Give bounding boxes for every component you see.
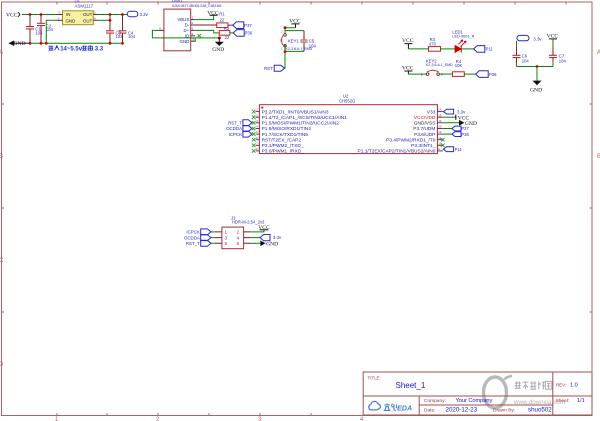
net port ICPCK (J1) xyxy=(186,229,214,235)
wire ground rail xyxy=(29,42,123,44)
capacitor C4 xyxy=(119,15,136,44)
net port ICPCK (MCU) xyxy=(229,131,252,137)
pin 4 (OUT) xyxy=(93,19,97,21)
svg-text:2020-12-23: 2020-12-23 xyxy=(446,406,478,413)
resistor R3 470 xyxy=(429,37,441,51)
wire C5 branch top xyxy=(285,30,304,32)
net port RST_T (J1) xyxy=(186,240,215,246)
svg-text:1/1: 1/1 xyxy=(577,398,585,404)
wire R2 to P36 xyxy=(230,32,234,34)
net port P36 (MCU) xyxy=(452,132,470,137)
pin 2 P1.4/T2_/CAP1_/SCS/TIN2/UCC1/AIN1 xyxy=(252,113,347,121)
node KEY1 bottom junction xyxy=(284,50,287,53)
regulator U1 ASM1117 xyxy=(58,0,98,25)
pin 4 P1.6/MISO/RXD1/TIN4 xyxy=(252,125,311,133)
net port P37 (MCU) xyxy=(452,126,470,131)
wire U1 GND to ground rail xyxy=(46,20,57,43)
svg-text:Company:: Company: xyxy=(424,398,446,404)
net port RST_T (MCU) xyxy=(228,120,252,126)
annotation 输入14~5.5v 输出3.3 xyxy=(49,45,93,50)
wire key bottom / C5 bottom xyxy=(285,45,304,69)
MCU U2 CH552G xyxy=(259,94,437,154)
svg-text:REV:: REV: xyxy=(556,383,566,388)
net flag 3.3v (V33 pin) xyxy=(443,109,466,114)
power VCC (KEY1) xyxy=(289,19,301,28)
capacitor C7 xyxy=(549,46,566,66)
wire R1 to P37 xyxy=(228,24,233,26)
node input junction 1 xyxy=(29,13,32,16)
pin 5 GND xyxy=(191,40,195,42)
wire KEY2 to R4 xyxy=(439,73,452,75)
svg-text:TITLE:: TITLE: xyxy=(368,376,381,381)
ground GND (MCU) xyxy=(459,120,477,127)
wire cap ground rail xyxy=(517,66,554,68)
resistor R2 xyxy=(219,26,230,40)
header J1 HDR-M-2.54_2x3 xyxy=(215,216,265,249)
node USB ground junction xyxy=(218,36,221,39)
wire R4 to P36 xyxy=(464,73,476,75)
wire GND pin xyxy=(443,122,459,124)
ground GND (USB) xyxy=(212,38,224,53)
watermark logo xyxy=(484,377,507,408)
no-connect X on pin ID xyxy=(197,34,201,38)
wire pin6 to GND xyxy=(251,242,260,244)
power VCC (LED row) xyxy=(402,38,414,49)
node ground junction C2 xyxy=(40,42,43,45)
pin 8 P3.0/PWM1_/RXD_ xyxy=(252,147,304,155)
net port P36 (USB D+) xyxy=(233,30,253,37)
wire VBUS to VCC xyxy=(195,15,214,19)
node output junction pin4 xyxy=(109,19,112,22)
ground GND (caps) xyxy=(530,67,542,94)
svg-text:1.0: 1.0 xyxy=(570,383,578,389)
pin 12 P3.6/UDP xyxy=(414,130,443,138)
net port OCDDA (MCU) xyxy=(226,126,252,132)
no-connect X xyxy=(441,144,445,148)
svg-text:Your Company: Your Company xyxy=(456,398,493,404)
wire U1 output pin4 xyxy=(98,19,111,21)
wire VCC to key top xyxy=(285,28,296,34)
wire pin2 to VCC xyxy=(251,230,264,232)
pin 15 VCC/VDD xyxy=(414,113,443,121)
wire D+ to R2 xyxy=(195,30,220,33)
no-connect X xyxy=(441,138,445,142)
pin 1 (GND) xyxy=(58,19,63,21)
resistor R4 10K xyxy=(452,59,464,76)
pin 11 P3.4/PWM2/RXD1_/T0 xyxy=(386,136,443,144)
wire P37 pin xyxy=(443,128,452,130)
pin 6 RST/T2EX_/CAP2 xyxy=(252,136,301,144)
pin 1 VBUS xyxy=(191,19,195,21)
port VCC xyxy=(6,12,20,18)
pin 16 V33 xyxy=(427,108,443,116)
button KEY1 K2-3.6-6.1_SMD xyxy=(281,29,313,51)
pin 4 ID xyxy=(191,35,195,37)
pin 9 P1.1/T2EX/CAP2/TIN1/VBUS2/AIN0 xyxy=(358,147,443,155)
net port P11 (MCU) xyxy=(443,147,462,152)
svg-text:EDA: EDA xyxy=(397,403,412,412)
net port P36 (KEY2) xyxy=(476,71,498,78)
svg-text:Sheet:: Sheet: xyxy=(556,398,570,404)
pin 10 P3.3/INT1_ xyxy=(411,141,443,149)
wire R3 to LED xyxy=(441,48,456,50)
net port RST xyxy=(264,65,285,71)
pin 2 (OUT) xyxy=(93,14,97,16)
capacitor C1 xyxy=(26,15,43,44)
node input junction 2 xyxy=(40,13,43,16)
ground GND (J1) xyxy=(260,241,278,248)
node KEY1 top junction xyxy=(284,26,287,29)
ground GND (input section) xyxy=(8,40,29,47)
net flag 3.3v (regulator output) xyxy=(127,11,148,17)
power VCC (C7) xyxy=(547,34,559,47)
node ground junction C4 xyxy=(121,42,124,45)
button KEY2 K2-3.6-6.1_SMD xyxy=(421,58,453,76)
connector USB1 U254-051T-4BH05-S2B_C482361 xyxy=(158,0,222,51)
svg-text:Drawn By:: Drawn By: xyxy=(493,407,515,413)
pin 3 D+ xyxy=(191,29,195,31)
node output junction C3 top xyxy=(109,13,112,16)
wire VCC to R3 xyxy=(408,48,428,50)
power VCC (KEY2 row) xyxy=(402,65,414,74)
capacitor C2 xyxy=(37,15,53,44)
wire GND pin jog xyxy=(194,38,197,41)
node cap rail junction xyxy=(536,65,539,68)
wire VCC to KEY2 xyxy=(408,73,426,75)
pin 2 D- xyxy=(191,24,217,26)
pin 3 P1.5/MOSI/PWM1/TIN3/UCC2/AIN2 xyxy=(252,119,339,127)
wire P36 pin xyxy=(443,133,452,135)
svg-text:Sheet_1: Sheet_1 xyxy=(396,381,426,390)
wire U1 output top xyxy=(98,14,128,16)
power VCC (J1) xyxy=(258,225,270,231)
power VCC (MCU) xyxy=(456,115,470,122)
pin 6 shield xyxy=(158,29,164,31)
node output junction C4 top xyxy=(121,13,124,16)
pin 14 GND/VSS xyxy=(414,119,443,127)
wire LED to P11 xyxy=(461,48,474,50)
node ground junction C3 xyxy=(109,42,112,45)
pin 13 P3.7/UDM xyxy=(413,125,443,133)
wire VCC pin xyxy=(443,116,456,118)
pin 5 P1.7/SCK/TXD1/TIN5 xyxy=(252,130,308,138)
pin stubs xyxy=(215,232,251,243)
node ground junction U1 GND xyxy=(45,42,48,45)
logo EasyEDA xyxy=(369,401,412,412)
capacitor C5 xyxy=(300,31,316,52)
capacitor C6 xyxy=(513,41,530,67)
net flag 3.3v (J1) xyxy=(260,235,282,241)
wire shield loop to ground rail xyxy=(152,30,219,38)
svg-text:Date:: Date: xyxy=(424,407,435,413)
resistor R1 xyxy=(217,12,228,28)
net port P37 (USB D-) xyxy=(233,22,253,29)
net port OCDDA (J1) xyxy=(184,235,215,241)
pin 3 (IN) xyxy=(58,14,63,16)
wire pin4 to 3.3v xyxy=(251,237,260,239)
LED LED1 LED-0603_R xyxy=(452,30,474,53)
capacitor C3 xyxy=(106,15,123,44)
net port P11 (LED) xyxy=(474,46,494,53)
node ground junction C1 xyxy=(29,42,32,45)
net flag 3.3v (C6) xyxy=(517,35,542,41)
svg-text:shuo502: shuo502 xyxy=(528,406,552,413)
pin 1 P3.2/TXD1_/INT0/VBUS1/AIN3 xyxy=(252,108,329,116)
power VCC (USB VBUS) xyxy=(207,10,219,16)
pin 7 P3.1/PWM2_/TXD_ xyxy=(252,141,304,149)
wire VCC input rail xyxy=(22,14,63,16)
